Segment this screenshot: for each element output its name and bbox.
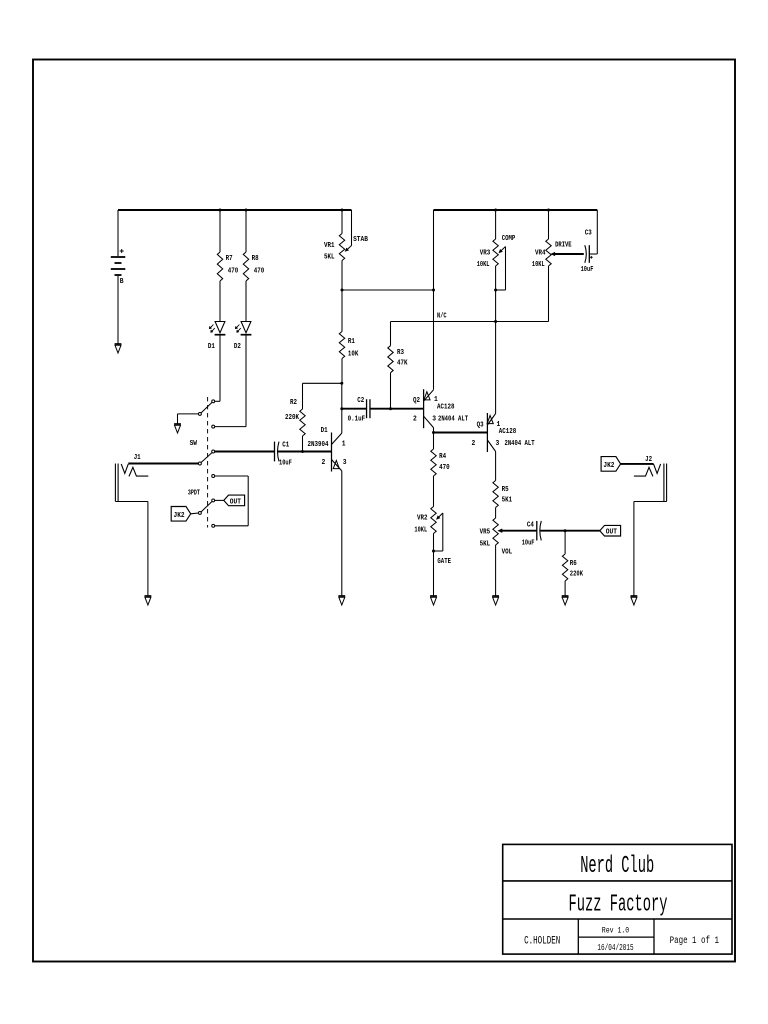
svg-text:VOL: VOL	[502, 548, 512, 556]
VR2 wiper tied to bottom terminal	[439, 513, 443, 517]
VR3 wiper tied to bottom terminal	[501, 247, 505, 251]
LED D2	[241, 322, 251, 333]
svg-text:B: B	[120, 278, 124, 286]
wire: D2 cathode to switch throw 2	[245, 335, 247, 427]
switch throw 1a	[212, 400, 215, 403]
svg-text:D1: D1	[208, 343, 215, 351]
svg-text:J1: J1	[134, 454, 141, 462]
svg-text:Fuzz Factory: Fuzz Factory	[569, 891, 668, 918]
svg-text:1: 1	[497, 421, 501, 429]
wire: collector column to Q1	[341, 409, 343, 433]
svg-text:STAB: STAB	[353, 236, 368, 244]
wire: VR5 bottom to ground	[495, 545, 497, 596]
svg-text:10KL: 10KL	[414, 526, 427, 534]
svg-text:0.1uF: 0.1uF	[348, 416, 366, 424]
node: Q2 collector / R4 / Q3 base junction	[432, 431, 435, 434]
switch pole 1	[198, 412, 201, 415]
switch pole 1 lever	[201, 402, 212, 413]
svg-text:2N404 ALT: 2N404 ALT	[438, 416, 469, 424]
svg-text:3: 3	[343, 459, 347, 467]
svg-text:D1: D1	[321, 427, 328, 435]
node: R2 / base-wire junction	[301, 450, 304, 453]
wire: Q3 collector to R5	[495, 451, 497, 480]
svg-text:C.HOLDEN: C.HOLDEN	[524, 935, 560, 947]
net flag JK2 (to switch pole 3)	[171, 507, 191, 522]
svg-text:5KL: 5KL	[480, 540, 491, 548]
svg-text:10uF: 10uF	[279, 459, 292, 467]
svg-text:2: 2	[413, 416, 417, 424]
wire: R7 to LED D1	[219, 281, 221, 322]
potentiometer VR2 10KL GATE	[431, 507, 436, 534]
svg-text:16/04/2015: 16/04/2015	[597, 943, 633, 953]
switch throw 3a	[212, 499, 215, 502]
resistor R5 5K1	[493, 481, 498, 508]
wire: node to C2	[342, 408, 367, 410]
title block	[503, 844, 732, 954]
wire: C2 to Q2 base	[370, 408, 424, 410]
LED D1	[215, 322, 225, 333]
svg-text:R3: R3	[397, 349, 404, 357]
wire: Q2 collector down to junction	[433, 428, 435, 433]
wire: R8 to LED D2	[245, 281, 247, 322]
node: C2 junction	[340, 407, 343, 410]
wire: D1 cathode to switch throw 1	[219, 335, 221, 402]
switch throw 1b	[212, 425, 215, 428]
svg-text:47K: 47K	[397, 360, 408, 368]
svg-text:R8: R8	[252, 255, 259, 263]
switch pole 3 lever	[201, 502, 212, 512]
svg-text:2: 2	[472, 440, 476, 448]
jack J2	[663, 464, 665, 502]
node: rail junction VR1	[341, 209, 344, 212]
svg-text:R1: R1	[348, 338, 355, 346]
switch pole 2	[198, 462, 201, 465]
svg-text:VR3: VR3	[480, 249, 491, 257]
svg-text:R6: R6	[570, 560, 577, 568]
svg-text:R2: R2	[290, 399, 297, 407]
resistor R7	[217, 252, 222, 281]
ground (battery)	[115, 343, 122, 345]
jack J1	[114, 464, 116, 502]
switch SW 3PDT: dashed gang line	[207, 397, 209, 528]
svg-text:5K1: 5K1	[502, 497, 513, 505]
ground (switch pole 1)	[174, 423, 181, 425]
node: VR1 bottom junction	[341, 289, 344, 292]
node: rail junction R8	[245, 209, 248, 212]
wire: J2 sleeve to ground	[634, 501, 667, 503]
wire: VR1 bottom to node	[341, 261, 343, 291]
wire: VR3 bottom down to Q3 emitter	[495, 266, 497, 414]
wire: VR1 wiper to rail	[351, 210, 353, 246]
ground (J2 sleeve)	[631, 595, 638, 597]
svg-text:J2: J2	[645, 456, 652, 464]
ground (VR5)	[492, 595, 499, 597]
switch throw 3b	[212, 524, 215, 527]
svg-text:OUT: OUT	[230, 498, 241, 506]
svg-text:DRIVE: DRIVE	[555, 241, 572, 249]
svg-text:C3: C3	[585, 229, 592, 237]
capacitor C2 0.1uF	[366, 399, 368, 418]
wire: Q2 collector node to Q3 base	[434, 432, 488, 434]
svg-text:2: 2	[322, 459, 326, 467]
wire: C3 to rail	[589, 253, 597, 255]
svg-text:JK2: JK2	[174, 512, 185, 520]
svg-text:C1: C1	[282, 441, 289, 449]
svg-text:220K: 220K	[570, 571, 584, 579]
svg-text:Rev 1.0: Rev 1.0	[602, 926, 629, 936]
wire: J1 tip to switch pole 2	[128, 463, 198, 465]
svg-text:3: 3	[432, 416, 436, 424]
wire: VR1 bottom to supply-rail column	[342, 289, 434, 291]
wire: R6 to ground	[564, 581, 566, 596]
transistor Q2 AC128	[423, 389, 425, 428]
capacitor C3 10uF	[585, 245, 587, 263]
svg-text:C2: C2	[357, 397, 364, 405]
wire: collector column	[341, 383, 343, 408]
resistor R2 220K	[300, 409, 305, 436]
svg-text:10uF: 10uF	[522, 540, 535, 548]
node: rail junction R7	[219, 209, 222, 212]
svg-text:N/C: N/C	[437, 313, 447, 321]
node: rail junction VR4	[547, 209, 550, 212]
capacitor C4 10uF	[536, 521, 538, 541]
battery B	[117, 210, 119, 256]
wire: R4 to VR2	[433, 476, 435, 507]
wire: collector supply rail (right segment)	[434, 209, 598, 211]
svg-text:C4: C4	[527, 522, 534, 530]
net flag OUT (output)	[600, 525, 621, 536]
wire: VR4 bottom to N/C line corner	[548, 266, 550, 322]
wire: Q1 emitter to ground	[341, 471, 343, 596]
svg-text:SW: SW	[190, 440, 198, 448]
svg-text:R7: R7	[226, 255, 233, 263]
svg-text:Q3: Q3	[477, 422, 484, 430]
svg-text:220K: 220K	[285, 414, 299, 422]
svg-text:R5: R5	[502, 486, 509, 494]
wire: R1 to collector node	[341, 359, 343, 384]
wire: bypass loop between throws 2b and 3b	[215, 475, 248, 477]
resistor R3 47K	[390, 373, 392, 409]
wire: R2 to Q1 base	[302, 436, 304, 452]
svg-text:10K: 10K	[348, 351, 359, 359]
switch throw 2b	[212, 475, 215, 478]
wire: junction to R4	[433, 433, 435, 450]
net flag JK2 (to output jack)	[601, 457, 621, 472]
svg-text:VR1: VR1	[324, 242, 335, 250]
node: rail junction VR3	[494, 209, 497, 212]
switch throw 2a	[212, 450, 215, 453]
svg-text:2N404 ALT: 2N404 ALT	[505, 440, 536, 448]
svg-text:5KL: 5KL	[324, 254, 335, 262]
wire: rail to VR1	[341, 210, 343, 234]
svg-text:470: 470	[439, 464, 450, 472]
ground (Q1 emitter)	[338, 595, 345, 597]
switch pole 3	[198, 511, 201, 514]
svg-text:3: 3	[496, 440, 500, 448]
wire: rail to R8	[245, 210, 247, 252]
svg-text:R4: R4	[439, 453, 446, 461]
wire: Q2 emitter up to supply node	[433, 210, 435, 390]
wire: pole 1 to ground	[178, 413, 199, 415]
svg-text:1: 1	[342, 441, 346, 449]
svg-text:VR2: VR2	[417, 514, 428, 522]
resistor R4 470	[431, 449, 436, 476]
svg-text:OUT: OUT	[606, 529, 617, 537]
wire: R5 to VR5	[495, 508, 497, 519]
ground (J1 sleeve)	[145, 595, 152, 597]
svg-text:10uF: 10uF	[581, 266, 594, 274]
wire: battery negative to ground	[117, 275, 119, 344]
svg-text:Nerd Club: Nerd Club	[580, 853, 654, 880]
resistor R1 10K	[339, 332, 344, 359]
node: R6 junction	[564, 529, 567, 532]
node: VR3 line crosses N/C line (connected)	[494, 320, 497, 323]
potentiometer VR5 5KL VOL	[493, 518, 498, 545]
wire: rail to VR3	[495, 210, 497, 239]
wire: rail to R7	[219, 210, 221, 252]
potentiometer VR1 5KL STAB	[339, 234, 344, 261]
wire: battery + rail (left segment)	[118, 209, 352, 211]
transistor Q3 AC128	[486, 413, 488, 452]
svg-text:Page 1 of 1: Page 1 of 1	[670, 935, 720, 946]
VR4 wiper to C3	[554, 253, 584, 255]
wire: VR2 bottom to ground	[433, 534, 435, 597]
svg-text:10KL: 10KL	[532, 261, 545, 269]
transistor Q1 2N3904 (labelled D1)	[331, 433, 333, 472]
wire: switch throw 2a to C1	[215, 451, 275, 453]
wire: node to R1	[341, 290, 343, 332]
svg-text:GATE: GATE	[437, 558, 451, 566]
wire: collector column to R2	[303, 382, 342, 384]
resistor R6 220K	[564, 531, 566, 554]
wire: C1 to Q1 base	[278, 451, 332, 453]
resistor R8	[243, 252, 248, 281]
wire: JK2 flag to J2 tip	[621, 463, 654, 465]
wire: R3 top to N/C line	[390, 322, 392, 346]
svg-text:1: 1	[434, 396, 438, 404]
svg-text:VR5: VR5	[480, 528, 491, 536]
VR5 wiper to C4	[502, 530, 537, 532]
svg-text:VR4: VR4	[535, 249, 546, 257]
wire: J1 sleeve to ground	[115, 501, 147, 503]
ground (R6)	[562, 595, 569, 597]
svg-text:10KL: 10KL	[477, 261, 490, 269]
svg-text:470: 470	[254, 268, 265, 276]
svg-text:JK2: JK2	[603, 462, 614, 470]
svg-text:AC128: AC128	[499, 428, 517, 436]
ground (VR2 / GATE)	[430, 595, 437, 597]
svg-text:AC128: AC128	[437, 404, 455, 412]
svg-text:2N3904: 2N3904	[308, 441, 329, 449]
wire: rail to VR4	[548, 210, 550, 239]
svg-text:Q2: Q2	[413, 397, 420, 405]
node: R2 branch junction	[340, 382, 343, 385]
wire: N/C crossover line (R3 top to VR4 bottom)	[391, 321, 549, 323]
svg-text:D2: D2	[234, 343, 241, 351]
svg-text:470: 470	[228, 268, 239, 276]
svg-text:3PDT: 3PDT	[188, 489, 200, 497]
potentiometer VR4 10KL DRIVE	[546, 239, 551, 266]
wire: C4 to OUT flag	[540, 530, 600, 532]
capacitor C1 10uF	[274, 442, 276, 462]
net flag OUT (switch throw 3a)	[224, 495, 245, 506]
node: R3 bottom junction	[389, 407, 392, 410]
potentiometer VR3 10KL COMP	[493, 239, 498, 266]
switch pole 2 lever	[201, 453, 212, 463]
svg-text:COMP: COMP	[502, 235, 516, 243]
